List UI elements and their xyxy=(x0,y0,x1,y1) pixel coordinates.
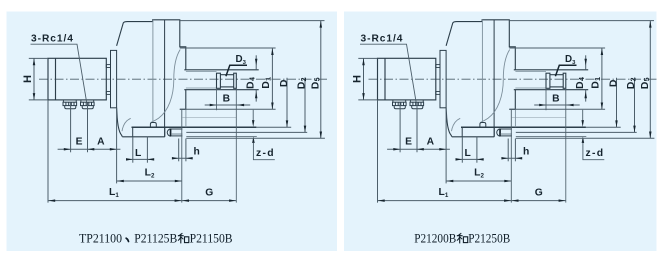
svg-text:TP21100: TP21100 xyxy=(79,232,122,246)
left panel background xyxy=(7,12,338,252)
svg-text:P21200B: P21200B xyxy=(414,232,456,246)
left pump drawing TP21100/P21125B/P21150B xyxy=(22,20,329,203)
svg-text:P21125B: P21125B xyxy=(134,232,177,246)
right pump drawing P21200B/P21250B xyxy=(352,20,659,203)
right panel background xyxy=(344,12,657,252)
svg-text:P21150B: P21150B xyxy=(190,232,233,246)
svg-text:P21250B: P21250B xyxy=(468,232,510,246)
